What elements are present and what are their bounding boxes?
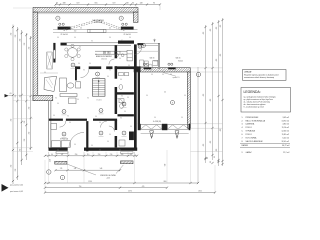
svg-text:+0,00: +0,00 (106, 177, 110, 179)
svg-text:ANEKS KUCHENNY: ANEKS KUCHENNY (96, 55, 113, 58)
svg-text:312: 312 (24, 139, 26, 142)
svg-text:90: 90 (57, 103, 59, 105)
svg-text:860: 860 (164, 181, 167, 183)
svg-text:90: 90 (146, 95, 148, 97)
svg-text:495: 495 (216, 149, 218, 152)
svg-text:90: 90 (107, 76, 109, 78)
svg-text:672: 672 (77, 2, 80, 4)
svg-text:LAZIENKA: LAZIENKA (246, 123, 255, 126)
svg-text:90: 90 (107, 141, 109, 143)
svg-text:RAZEM: RAZEM (242, 144, 249, 147)
svg-text:495: 495 (216, 27, 218, 30)
svg-text:90x140: 90x140 (154, 61, 159, 63)
svg-text:312: 312 (28, 107, 30, 110)
svg-text:495: 495 (210, 141, 212, 144)
svg-text:poz. terenu -0,45: poz. terenu -0,45 (10, 190, 23, 193)
svg-text:UWAGA!: UWAGA! (244, 70, 252, 73)
svg-text:90: 90 (127, 97, 129, 99)
svg-text:6: 6 (64, 134, 65, 136)
svg-text:9: 9 (172, 102, 173, 104)
svg-text:2570: 2570 (128, 191, 132, 193)
svg-text:240: 240 (176, 136, 179, 138)
svg-text:12,65 m2: 12,65 m2 (282, 131, 290, 133)
svg-text:96,72 m2: 96,72 m2 (282, 145, 290, 147)
svg-text:90: 90 (151, 74, 153, 76)
svg-text:90: 90 (153, 2, 155, 4)
svg-text:312: 312 (24, 43, 26, 46)
svg-text:90: 90 (51, 154, 53, 156)
svg-text:176: 176 (60, 168, 63, 170)
svg-text:250: 250 (98, 154, 101, 156)
svg-text:90: 90 (162, 74, 164, 76)
svg-text:KOTLOWNIA: KOTLOWNIA (246, 137, 258, 140)
svg-text:22: 22 (164, 92, 166, 94)
svg-text:312: 312 (19, 95, 21, 98)
svg-text:90: 90 (78, 63, 80, 65)
svg-text:90: 90 (44, 72, 46, 74)
svg-text:90: 90 (57, 150, 59, 152)
svg-text:495: 495 (203, 32, 205, 35)
svg-text:90: 90 (99, 149, 101, 151)
svg-text:1: 1 (62, 177, 63, 179)
svg-text:148: 148 (140, 2, 143, 4)
svg-text:90: 90 (95, 54, 97, 56)
svg-text:90: 90 (91, 41, 93, 43)
svg-text:90: 90 (130, 126, 132, 128)
svg-text:O1 90x140: O1 90x140 (123, 34, 131, 36)
svg-text:NAD OKAPEM: NAD OKAPEM (92, 19, 104, 22)
svg-text:13,3 m2: 13,3 m2 (101, 58, 107, 60)
svg-text:8: 8 (73, 65, 74, 67)
svg-text:13,91 m2: 13,91 m2 (282, 120, 290, 122)
svg-text:312: 312 (28, 132, 30, 135)
svg-text:2: 2 (101, 133, 102, 135)
svg-text:17x17,6: 17x17,6 (97, 100, 102, 102)
svg-text:90: 90 (87, 98, 89, 100)
svg-text:GARAZ: GARAZ (246, 151, 253, 154)
svg-text:495: 495 (210, 29, 212, 32)
svg-text:312: 312 (19, 39, 21, 42)
svg-text:312: 312 (15, 95, 17, 98)
svg-text:WEJSCIE GLOWNE: WEJSCIE GLOWNE (100, 175, 116, 177)
svg-text:11,81 m2: 11,81 m2 (282, 134, 289, 136)
svg-text:470: 470 (142, 186, 145, 188)
svg-text:495: 495 (220, 25, 222, 28)
svg-text:3: 3 (124, 104, 125, 106)
svg-text:495: 495 (216, 59, 218, 62)
svg-text:495: 495 (203, 94, 205, 97)
svg-text:90: 90 (207, 157, 209, 159)
svg-text:2: 2 (198, 74, 199, 76)
svg-text:312: 312 (11, 33, 13, 36)
svg-text:90: 90 (121, 40, 123, 42)
svg-text:SYPIALNIA: SYPIALNIA (246, 130, 256, 133)
svg-text:90: 90 (74, 37, 76, 39)
svg-text:312: 312 (28, 47, 30, 50)
svg-text:3,62 m2: 3,62 m2 (283, 117, 290, 119)
svg-text:200: 200 (121, 154, 124, 156)
svg-text:90: 90 (67, 116, 69, 118)
svg-text:495: 495 (203, 144, 205, 147)
svg-text:4,81 m2: 4,81 m2 (283, 124, 290, 126)
svg-text:90: 90 (99, 122, 101, 124)
svg-text:90: 90 (89, 63, 91, 65)
svg-text:90: 90 (79, 47, 81, 49)
svg-text:312: 312 (15, 169, 17, 172)
svg-text:210: 210 (110, 154, 113, 156)
svg-text:495: 495 (210, 99, 212, 102)
svg-text:HALL Z KOMUNIKACJA: HALL Z KOMUNIKACJA (246, 119, 266, 122)
svg-text:147: 147 (61, 154, 64, 156)
svg-text:750: 750 (79, 186, 82, 188)
svg-text:110: 110 (87, 154, 90, 156)
svg-text:90: 90 (120, 79, 122, 81)
svg-text:495: 495 (220, 129, 222, 132)
svg-text:90: 90 (95, 116, 97, 118)
svg-text:90: 90 (109, 37, 111, 39)
svg-text:90: 90 (124, 111, 126, 113)
svg-text:-0,02: -0,02 (50, 159, 52, 162)
svg-text:90: 90 (109, 70, 111, 72)
svg-text:spadek 2%: spadek 2% (173, 77, 181, 79)
svg-text:S - scianki dzialowe gr. 12cm: S - scianki dzialowe gr. 12cm (244, 107, 265, 109)
svg-text:90: 90 (129, 37, 131, 39)
svg-text:90x140: 90x140 (178, 61, 183, 63)
svg-text:90: 90 (121, 96, 123, 98)
svg-text:22,2 m2: 22,2 m2 (283, 152, 289, 154)
svg-text:90: 90 (109, 134, 111, 136)
svg-text:1294: 1294 (88, 181, 92, 183)
svg-text:90: 90 (83, 70, 85, 72)
svg-text:312: 312 (15, 35, 17, 38)
svg-text:40: 40 (109, 28, 111, 30)
svg-text:495: 495 (220, 54, 222, 57)
svg-text:32,41 m2: 32,41 m2 (282, 141, 290, 143)
svg-text:90: 90 (119, 149, 121, 151)
svg-text:248: 248 (126, 2, 129, 4)
svg-text:90: 90 (74, 144, 76, 146)
svg-text:poz. parteru 0,00: poz. parteru 0,00 (10, 184, 23, 187)
svg-text:8x OSB (36): 8x OSB (36) (153, 121, 162, 123)
svg-text:90: 90 (120, 118, 122, 120)
svg-text:90: 90 (184, 95, 186, 97)
svg-text:546: 546 (100, 168, 103, 170)
svg-text:90: 90 (77, 99, 79, 101)
svg-text:90: 90 (210, 161, 212, 163)
svg-text:655: 655 (95, 2, 98, 4)
svg-text:5: 5 (64, 111, 65, 113)
svg-text:90: 90 (55, 98, 57, 100)
svg-text:2: 2 (57, 18, 58, 20)
svg-text:4: 4 (101, 110, 102, 112)
svg-text:LEGENDA:: LEGENDA: (244, 90, 261, 94)
svg-text:312: 312 (11, 165, 13, 168)
svg-text:672: 672 (113, 2, 116, 4)
svg-text:348: 348 (63, 2, 66, 4)
svg-text:90: 90 (218, 160, 220, 162)
svg-text:90: 90 (154, 117, 156, 119)
svg-text:90: 90 (214, 156, 216, 158)
svg-text:90: 90 (119, 58, 121, 60)
svg-text:1: 1 (48, 172, 49, 174)
svg-text:90: 90 (132, 2, 134, 4)
svg-text:312: 312 (19, 149, 21, 152)
svg-text:90: 90 (181, 117, 183, 119)
svg-text:7: 7 (124, 133, 125, 135)
svg-text:312: 312 (24, 121, 26, 124)
svg-text:90: 90 (53, 115, 55, 117)
svg-text:PRZEDSIONEK: PRZEDSIONEK (246, 117, 260, 119)
svg-text:40: 40 (80, 28, 82, 30)
svg-text:O1 90x140: O1 90x140 (60, 34, 68, 36)
svg-text:POKOJ: POKOJ (246, 134, 252, 136)
svg-text:11,10 m2: 11,10 m2 (282, 127, 289, 129)
svg-text:90: 90 (56, 2, 58, 4)
svg-text:312: 312 (11, 119, 13, 122)
svg-text:2: 2 (97, 74, 98, 76)
svg-text:3: 3 (121, 18, 122, 20)
svg-text:POKOJ: POKOJ (246, 127, 252, 129)
svg-text:4,5: 4,5 (10, 93, 12, 95)
svg-text:250: 250 (75, 154, 78, 156)
svg-text:90: 90 (170, 74, 172, 76)
svg-text:246: 246 (74, 168, 77, 170)
svg-text:105: 105 (130, 154, 133, 156)
svg-text:SALON Z ANEKSEM: SALON Z ANEKSEM (246, 140, 263, 143)
svg-text:90: 90 (57, 37, 59, 39)
svg-text:90: 90 (69, 122, 71, 124)
svg-text:90: 90 (91, 145, 93, 147)
svg-text:90: 90 (128, 65, 130, 67)
svg-text:150: 150 (74, 31, 77, 33)
svg-text:940: 940 (164, 164, 166, 167)
svg-text:240: 240 (150, 136, 153, 138)
svg-text:6,41 m2: 6,41 m2 (283, 138, 290, 140)
